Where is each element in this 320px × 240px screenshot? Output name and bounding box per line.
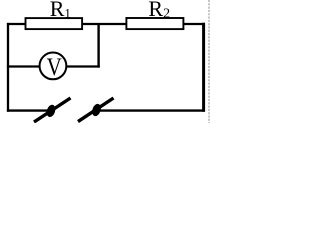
- voltmeter U1: [40, 53, 67, 80]
- wire top-left segment: [7, 23, 26, 25]
- wire voltmeter branch right: [66, 65, 100, 67]
- wire left vertical: [7, 23, 9, 112]
- switch S2 blade: [78, 98, 114, 122]
- resistor R2: [126, 18, 183, 29]
- switch S1 pivot dot: [45, 104, 57, 119]
- wire voltmeter branch left: [7, 65, 40, 67]
- wire R2 to right corner: [184, 23, 206, 25]
- wire bottom left segment: [7, 109, 49, 111]
- switch S2 pivot dot: [91, 103, 103, 118]
- svg-text:V: V: [47, 52, 62, 80]
- wire right vertical: [202, 23, 205, 112]
- decorative dashed page border (not labeled as component): [208, 0, 210, 123]
- wire between R1 and R2: [83, 23, 127, 25]
- resistor R1: [26, 18, 83, 29]
- wire middle vertical to node between R1 and R2: [97, 23, 99, 68]
- wire bottom right segment: [100, 109, 206, 111]
- switch S1 blade: [34, 98, 71, 122]
